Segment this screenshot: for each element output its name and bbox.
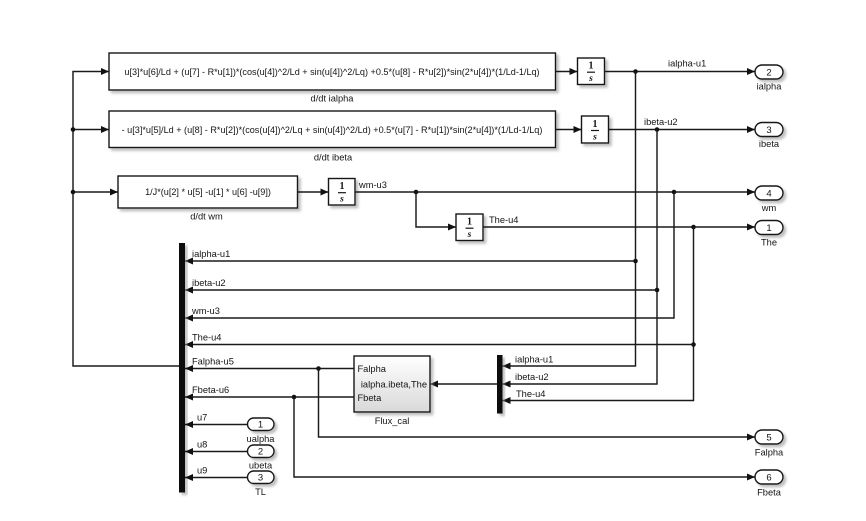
inport 2 ubeta	[248, 445, 275, 458]
svg-text:1: 1	[766, 223, 771, 234]
svg-text:1: 1	[340, 181, 345, 192]
wire: Fbeta out of Flux_cal into big mux	[185, 396, 354, 398]
mux big (9 inputs)	[179, 243, 185, 493]
svg-text:The-u4: The-u4	[192, 333, 221, 343]
integrator 1/s (ialpha)	[578, 58, 605, 85]
arrowhead into outport 5	[747, 434, 755, 441]
svg-text:s: s	[339, 195, 344, 205]
svg-text:4: 4	[766, 189, 771, 200]
wire: feed vertical from mux output up left side	[73, 72, 179, 367]
junction Falpha branch	[316, 366, 321, 371]
integrator 1/s (ibeta)	[582, 116, 609, 143]
integrator 1/s (wm)	[329, 179, 356, 206]
wire: The-u4 into big mux	[185, 344, 694, 346]
arrowhead into integrator3	[321, 189, 329, 196]
junction The-u4 to big mux	[691, 342, 696, 347]
svg-text:d/dt ialpha: d/dt ialpha	[311, 94, 355, 104]
wire: The-u4 drop	[503, 227, 694, 401]
junction on ibeta wire	[655, 127, 660, 132]
wire: u7 into big mux	[185, 424, 248, 426]
wire: mux2 output into Flux_cal	[430, 383, 497, 385]
wire: Fbeta branch to outport 6	[294, 397, 755, 477]
arrowhead into integrator4	[448, 224, 456, 231]
wire: wm-u3 drop into big mux	[185, 192, 674, 318]
wire: wm branch down to integrator4	[416, 192, 456, 227]
svg-text:The-u4: The-u4	[516, 389, 545, 399]
arrowhead into Flux_cal	[430, 381, 438, 388]
arrowhead into outport 3	[747, 126, 755, 133]
svg-text:3: 3	[766, 125, 771, 136]
arrowhead ialpha-u1 into big mux	[185, 258, 193, 265]
integrator 1/s (The)	[456, 214, 483, 241]
svg-text:u[3]*u[6]/Ld + (u[7] - R*u[1]): u[3]*u[6]/Ld + (u[7] - R*u[1])*(cos(u[4]…	[124, 67, 539, 77]
arrowhead u8 into big mux	[185, 448, 193, 455]
wire: ibeta-u2 into big mux	[185, 289, 657, 291]
wire: integrator4 to outport The	[483, 226, 755, 228]
wire: Fcn2 to integrator2	[556, 129, 582, 131]
svg-text:The: The	[761, 238, 777, 248]
wire: Fcn3 to integrator3	[298, 191, 329, 193]
junction on ialpha wire	[633, 69, 638, 74]
arrowhead into Fcn2	[101, 126, 109, 133]
svg-text:1: 1	[467, 217, 472, 228]
svg-text:u8: u8	[197, 440, 207, 450]
arrowhead Fbeta-u6 into big mux	[185, 394, 193, 401]
wire: integrator3 to outport wm	[355, 191, 755, 193]
svg-text:Falpha-u5: Falpha-u5	[192, 357, 234, 367]
Fcn block d/dt ibeta	[109, 111, 556, 148]
svg-text:s: s	[592, 132, 597, 142]
svg-text:3: 3	[258, 473, 263, 484]
svg-text:Fbeta: Fbeta	[358, 393, 383, 403]
svg-text:2: 2	[766, 68, 771, 79]
svg-text:5: 5	[766, 433, 771, 444]
svg-text:Fbeta-u6: Fbeta-u6	[192, 385, 229, 395]
junction wm drop to big mux	[672, 190, 677, 195]
outport 5 Falpha	[755, 430, 783, 444]
wire: branch to Fcn d/dt ibeta	[73, 129, 109, 131]
svg-text:Falpha: Falpha	[358, 364, 387, 374]
junction ibeta drop to big mux	[655, 288, 660, 293]
svg-text:1: 1	[258, 420, 263, 431]
svg-text:ialpha.ibeta,The: ialpha.ibeta,The	[361, 380, 427, 390]
arrowhead ialpha-u1 into mux2	[503, 363, 511, 370]
arrowhead into integrator2	[574, 126, 582, 133]
arrowhead ibeta-u2 into mux2	[503, 381, 511, 388]
svg-text:ualpha: ualpha	[247, 434, 276, 444]
outport 2 ialpha	[755, 65, 783, 79]
arrowhead Falpha-u5 into big mux	[185, 365, 193, 372]
svg-text:ibeta-u2: ibeta-u2	[644, 117, 678, 127]
mux2 (3 inputs)	[497, 355, 503, 414]
wire: ialpha-u1 vertical drop	[503, 72, 636, 367]
junction The drop	[691, 225, 696, 230]
outport 3 ibeta	[755, 123, 783, 137]
wire: Falpha out of Flux_cal into big mux	[185, 368, 354, 370]
inport 1 ualpha	[248, 418, 275, 431]
wire: u9 into big mux	[185, 477, 248, 479]
arrowhead into outport 2	[747, 68, 755, 75]
svg-text:Fbeta: Fbeta	[757, 488, 782, 498]
svg-text:ialpha-u1: ialpha-u1	[515, 355, 553, 365]
wire: Fcn1 to integrator1	[556, 71, 578, 73]
svg-text:u7: u7	[197, 413, 207, 423]
svg-text:TL: TL	[255, 487, 266, 497]
wire: Falpha branch to outport 5	[319, 369, 756, 438]
wire: u8 into big mux	[185, 451, 248, 453]
svg-text:d/dt wm: d/dt wm	[190, 212, 223, 222]
arrowhead u9 into big mux	[185, 474, 193, 481]
arrowhead The-u4 into big mux	[185, 341, 193, 348]
arrowhead ibeta-u2 into big mux	[185, 287, 193, 294]
svg-text:ibeta: ibeta	[759, 139, 780, 149]
svg-text:Falpha: Falpha	[755, 448, 784, 458]
arrowhead The-u4 into mux2	[503, 397, 511, 404]
wire: ibeta-u2 vertical drop	[503, 130, 658, 385]
arrowhead u7 into big mux	[185, 421, 193, 428]
junction ialpha drop to big mux	[633, 259, 638, 264]
subsystem Flux_cal	[354, 356, 430, 412]
svg-text:Flux_cal: Flux_cal	[375, 416, 410, 426]
junction wm to integrator4	[414, 190, 419, 195]
Fcn block d/dt ialpha	[109, 53, 556, 90]
wire: ialpha-u1 into big mux	[185, 260, 636, 262]
outport 4 wm	[755, 186, 783, 200]
junction: feed to block3	[71, 190, 76, 195]
arrowhead wm-u3 into big mux	[185, 315, 193, 322]
junction Fbeta branch	[292, 395, 297, 400]
svg-text:1: 1	[589, 61, 594, 72]
svg-text:1: 1	[593, 119, 598, 130]
arrowhead into Fcn3	[110, 189, 118, 196]
arrowhead into outport 6	[747, 474, 755, 481]
Fcn block d/dt wm	[118, 176, 298, 208]
arrowhead into integrator1	[570, 68, 578, 75]
wire: integrator2 to outport ibeta	[609, 129, 756, 131]
arrowhead into Fcn1	[101, 68, 109, 75]
arrowhead into outport 4	[747, 189, 755, 196]
svg-text:wm-u3: wm-u3	[191, 306, 220, 316]
svg-text:6: 6	[766, 473, 771, 484]
svg-text:wm-u3: wm-u3	[358, 180, 387, 190]
wire: integrator1 to outport ialpha	[605, 71, 756, 73]
svg-text:ubeta: ubeta	[249, 461, 273, 471]
svg-text:u9: u9	[197, 466, 207, 476]
svg-text:The-u4: The-u4	[489, 215, 518, 225]
arrowhead into outport 1	[747, 224, 755, 231]
svg-text:ialpha-u1: ialpha-u1	[668, 59, 706, 69]
svg-text:ialpha-u1: ialpha-u1	[192, 249, 230, 259]
outport 6 Fbeta	[755, 470, 783, 484]
svg-text:wm: wm	[761, 203, 777, 213]
svg-text:s: s	[467, 230, 472, 240]
svg-text:ibeta-u2: ibeta-u2	[515, 372, 549, 382]
outport 1 The	[755, 221, 783, 235]
svg-text:ibeta-u2: ibeta-u2	[192, 278, 226, 288]
svg-text:d/dt ibeta: d/dt ibeta	[314, 153, 353, 163]
inport 3 TL	[248, 471, 275, 484]
svg-text:2: 2	[258, 447, 263, 458]
svg-text:- u[3]*u[5]/Ld + (u[8] - R*u[2: - u[3]*u[5]/Ld + (u[8] - R*u[2])*(cos(u[…	[122, 125, 543, 135]
svg-text:s: s	[588, 74, 593, 84]
svg-text:1/J*(u[2] * u[5] -u[1] * u[6]: 1/J*(u[2] * u[5] -u[1] * u[6] -u[9])	[145, 187, 271, 197]
junction: feed to block2	[71, 127, 76, 132]
svg-text:ialpha: ialpha	[757, 82, 783, 92]
wire: branch to Fcn d/dt wm	[73, 191, 118, 193]
